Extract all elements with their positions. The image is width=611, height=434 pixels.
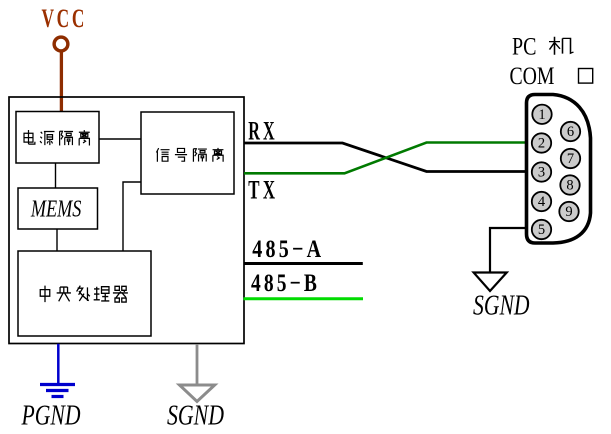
block U2 signal isolation 信号隔离 xyxy=(141,112,234,194)
svg-text:485−A: 485−A xyxy=(252,236,324,263)
wire TX (dark green, crosses over) xyxy=(244,143,527,174)
wire 485-B (bright green) xyxy=(244,297,364,300)
wire signal-isolation to CPU xyxy=(123,182,141,251)
wire VCC supply xyxy=(60,52,63,112)
wire CPU to PGND (blue) xyxy=(57,344,60,384)
pin 3 xyxy=(532,162,551,181)
wire 485-A xyxy=(244,262,363,265)
svg-text:1: 1 xyxy=(538,107,545,123)
pin 5 xyxy=(532,220,551,239)
svg-text:PGND: PGND xyxy=(21,401,81,432)
svg-text:2: 2 xyxy=(538,136,545,152)
svg-text:SGND: SGND xyxy=(473,291,530,322)
connector J1 DB9 COM port outline xyxy=(527,95,591,244)
wire power-isolation to MEMS xyxy=(55,163,57,188)
svg-text:VCC: VCC xyxy=(42,4,88,33)
svg-text:485−B: 485−B xyxy=(251,270,320,297)
pin 9 xyxy=(559,202,578,221)
ground PGND symbol (blue earth ground) xyxy=(40,385,75,397)
wire module to SGND (gray) xyxy=(196,344,199,384)
svg-text:4: 4 xyxy=(538,194,546,210)
svg-text:COM: COM xyxy=(510,63,555,90)
wire MEMS to CPU xyxy=(56,229,58,251)
wire pin5 to SGND xyxy=(490,228,527,273)
pin 1 xyxy=(532,105,551,124)
svg-text:TX: TX xyxy=(248,176,278,205)
svg-text:7: 7 xyxy=(567,151,574,167)
pin 6 xyxy=(561,122,580,141)
svg-text:SGND: SGND xyxy=(167,401,224,432)
label PC 机 xyxy=(512,33,574,60)
svg-text:5: 5 xyxy=(538,222,545,238)
svg-text:PC: PC xyxy=(512,33,537,60)
pin 4 xyxy=(532,192,551,211)
block U1 power isolation 电源隔离 xyxy=(16,112,99,164)
svg-text:9: 9 xyxy=(565,204,572,220)
pin 8 xyxy=(560,175,579,194)
svg-text:3: 3 xyxy=(538,165,545,181)
pin 7 xyxy=(561,149,580,168)
ground SGND symbol left (gray open triangle) xyxy=(180,385,215,402)
svg-text:MEMS: MEMS xyxy=(30,196,81,223)
wire power-isolation to signal-isolation xyxy=(99,138,141,140)
wire RX (black, crosses over) xyxy=(244,143,527,172)
block U3 MEMS xyxy=(18,188,98,229)
label COM 口 xyxy=(510,63,593,90)
pin 2 xyxy=(532,133,551,152)
svg-text:8: 8 xyxy=(566,178,573,194)
module outline box xyxy=(9,97,244,344)
svg-text:RX: RX xyxy=(248,117,277,146)
block U4 CPU 中央处理器 xyxy=(18,251,151,336)
ground SGND symbol right (open triangle) xyxy=(474,273,507,292)
svg-text:6: 6 xyxy=(567,124,574,140)
VCC terminal circle xyxy=(54,37,68,51)
